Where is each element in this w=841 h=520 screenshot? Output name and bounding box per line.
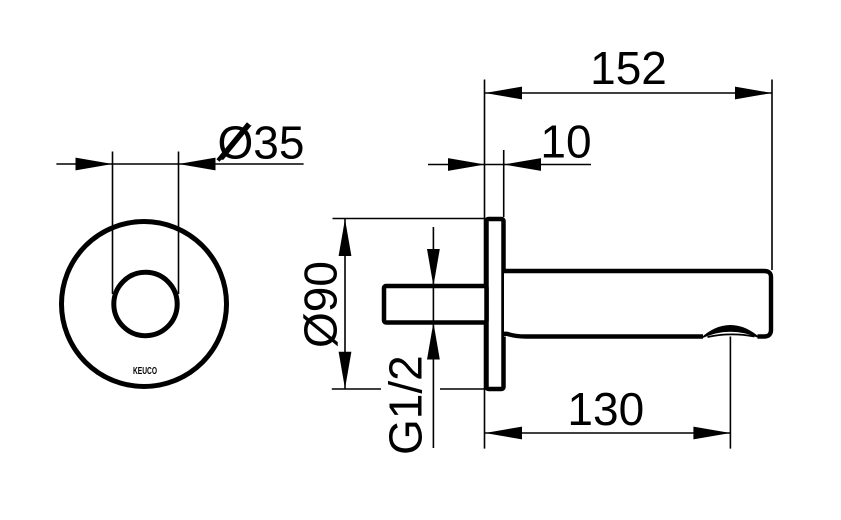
spout hub inner circle — [114, 272, 177, 335]
spout body fill — [504, 271, 771, 337]
arrowhead G1/2 top (points down) — [427, 249, 440, 286]
escutcheon outer circle — [62, 222, 227, 387]
aerator outlet bump — [701, 325, 761, 339]
svg-text:130: 130 — [567, 383, 644, 435]
arrowhead 152 left (points left) — [485, 87, 522, 100]
arrowhead 130 right (points right) — [693, 427, 730, 440]
wall-plane extension line (left of flange, for 152/130) — [484, 80, 486, 449]
extension line left of Ø35 — [112, 152, 114, 295]
outlet extension line (for 130) — [729, 335, 731, 449]
aerator inner arc — [708, 334, 755, 337]
dimension line G1/2 — [432, 227, 434, 448]
arrowhead G1/2 bottom (points up) — [427, 323, 440, 360]
arrowhead Ø90 top (points up) — [339, 219, 352, 256]
flange-front extension line (for 10) — [503, 150, 505, 217]
spout body outline (lower-left) — [504, 334, 703, 337]
flange-bottom extension line (for Ø90, left part) — [332, 388, 381, 390]
arrowhead Ø35 right (points left) — [179, 158, 216, 171]
svg-text:10: 10 — [540, 116, 591, 168]
arrowhead Ø90 bottom (points down) — [339, 352, 352, 389]
arrowhead Ø35 left (points right) — [76, 158, 113, 171]
svg-text:Ø90: Ø90 — [295, 261, 347, 348]
svg-text:KEUCO: KEUCO — [133, 365, 157, 377]
svg-text:152: 152 — [590, 42, 667, 94]
supply pipe G1/2 — [384, 286, 487, 323]
extension line right of Ø35 — [178, 152, 180, 295]
dimension line 10 — [428, 164, 591, 166]
flange-top extension line (for Ø90) — [333, 218, 487, 220]
arrowhead 130 left (points left) — [485, 427, 522, 440]
arrowhead 10 right (points left) — [504, 158, 541, 171]
dimension line Ø35 — [56, 163, 303, 165]
dimension line 152 — [485, 92, 772, 94]
dimension line 130 — [485, 432, 730, 434]
flange plate — [487, 219, 504, 389]
arrowhead 152 right (points right) — [735, 87, 772, 100]
spout-tip extension line (for 152) — [771, 80, 773, 271]
dimension line Ø90 — [344, 219, 346, 389]
spout body outline (top, tip, lower-right) — [504, 271, 771, 337]
svg-text:G1/2: G1/2 — [380, 355, 432, 455]
flange-bottom extension line (for Ø90, right part) — [440, 388, 500, 390]
diameter-symbol slash of Ø35 — [218, 124, 249, 161]
arrowhead 10 left (points right) — [448, 158, 485, 171]
